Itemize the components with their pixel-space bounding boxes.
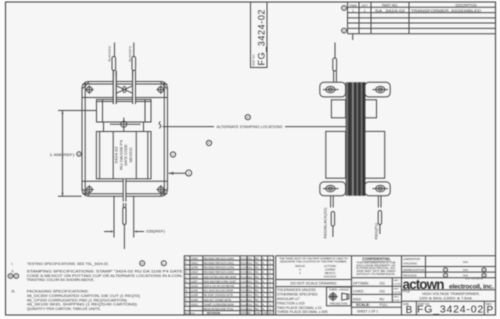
balloon P upper [245,115,250,120]
top wire right figure [334,43,336,58]
svg-text:RC: RC [255,294,259,297]
svg-text:1-31-96: 1-31-96 [393,284,401,286]
dftsmn chkd eng rows [352,278,402,307]
svg-text:N/A: N/A [463,268,468,272]
svg-text:REVISED PER ECN 10923: REVISED PER ECN 10923 [204,271,235,274]
balloon P after note I [140,261,145,266]
svg-text:P: P [141,261,143,265]
svg-text:THIRD—ANGLE: THIRD—ANGLE [329,288,349,292]
svg-text:H: H [185,271,187,274]
svg-text:II.: II. [12,270,15,274]
svg-text:CHART 12 REVISED BOM: CHART 12 REVISED BOM [204,303,234,306]
svg-text:TRASTING COLOR AS SHOWN AB: TRASTING COLOR AS SHOWN ABOVE. [27,278,95,282]
svg-text:1: 1 [188,172,190,176]
coil body [96,132,151,179]
svg-text:1: 1 [352,9,354,13]
svg-text:BY: BY [248,312,252,315]
third digit note block [276,256,496,315]
svg-text:TOLERANCES UNLESS: TOLERANCES UNLESS [277,288,316,292]
lamination stacking box [402,256,496,278]
svg-text:GG: GG [248,294,252,297]
svg-text:REVISED PER ECN 10611: REVISED PER ECN 10611 [204,262,235,265]
dim 1.468(REF) [58,111,96,197]
dim .035(REF) [104,197,144,238]
svg-text:GG: GG [248,303,252,306]
bottom foot right [365,182,390,196]
actown logo [403,277,494,292]
svg-text:BLACK(P1): BLACK(P1) [128,46,132,62]
svg-text:REVISION: REVISION [207,311,220,315]
svg-text:CHG: CHG [262,312,268,315]
parts list header text [349,3,482,12]
leader to right figure [285,126,351,128]
svg-text:DESIGNATE THE LOCATION OF: DESIGNATE THE LOCATION OF THE PART NUMBE… [280,260,347,264]
svg-text:11306: 11306 [191,290,198,293]
svg-text:GG: GG [248,257,252,260]
svg-text:WITHOUT ITS PERMISSION.: WITHOUT ITS PERMISSION. [357,272,396,276]
svg-text:N/A: N/A [463,260,468,264]
svg-text:10452: 10452 [191,257,199,260]
svg-text:OTHERWISE SPECIFIED: OTHERWISE SPECIFIED [277,293,318,297]
cup side right [365,131,385,178]
svg-text:REVISED PER ECN 10784: REVISED PER ECN 10784 [204,267,235,270]
svg-text:I.: I. [11,262,13,266]
svg-text:ALTERNATE STAMPING LOCATIONS: ALTERNATE STAMPING LOCATIONS [217,125,284,129]
svg-text:2004 IL DA 46 CU5 REVSD: 2004 IL DA 46 CU5 REVSD [204,285,235,288]
balloon L after note I [161,261,166,266]
bottom foot left [320,182,346,196]
svg-text:P: P [247,115,249,119]
svg-text:HIGH VOLTAGE TRANSFORMER,: HIGH VOLTAGE TRANSFORMER, [422,292,480,296]
plate flange fold lines [82,84,167,194]
svg-text:DFTSMN:: DFTSMN: [353,282,369,286]
svg-text:QTY: QTY [362,3,368,7]
projection symbol [330,293,337,300]
svg-text:FG_3424-02: FG_3424-02 [417,303,484,315]
svg-text:III.: III. [12,290,16,294]
svg-text:GG: GG [248,280,252,283]
svg-text:GG: GG [380,290,386,294]
mounting hole bottom-right [156,185,165,194]
svg-text:X: X [343,6,345,10]
cup side left [326,131,346,178]
confidential block [356,257,396,276]
svg-text:RC: RC [380,298,385,302]
svg-text:DATE: DATE [393,279,399,282]
svg-text:RC: RC [255,276,259,279]
leader below table [352,34,354,40]
svg-text:MEXICO: MEXICO [325,271,336,275]
plate inner side lines [85,82,164,196]
svg-text:RC: RC [255,262,259,265]
svg-text:N: N [185,294,187,297]
svg-text:ENG:: ENG: [353,298,362,302]
bottom wire left of right figure [331,196,334,208]
svg-text:SA_3424-02: SA_3424-02 [375,9,405,13]
svg-text:RED/BLACK(S2): RED/BLACK(S2) [323,208,327,239]
svg-text:CHICAGO: CHICAGO [324,275,337,279]
svg-text:RC: RC [255,271,259,274]
svg-text:1: 1 [364,9,366,13]
title box [402,290,496,302]
svg-text:RC: RC [255,267,259,270]
svg-text:ANGULAR ±1°: ANGULAR ±1° [277,297,301,301]
svg-text:11045: 11045 [191,276,198,279]
svg-text:A: A [299,267,301,271]
svg-text:GG: GG [248,285,252,288]
svg-text:3424-02: 3424-02 [115,147,119,164]
bottom wire right of right figure [378,196,381,208]
svg-text:SHEET 1 OF 1: SHEET 1 OF 1 [357,310,378,314]
svg-text:IMPREGNATION: IMPREGNATION [403,268,424,272]
svg-text:3424-02: 3424-02 [295,264,305,268]
svg-text:1-31-96: 1-31-96 [393,292,401,294]
svg-text:DO NOT SCALE DRAWING: DO NOT SCALE DRAWING [291,281,337,286]
svg-text:2-1-96: 2-1-96 [393,300,400,302]
svg-text:THREE PLACE DECIMAL ±.005: THREE PLACE DECIMAL ±.005 [277,310,327,314]
svg-text:10784: 10784 [191,267,199,270]
svg-text:RE 9/MO CHANGE NOTE: RE 9/MO CHANGE NOTE [204,294,234,297]
svg-text:FULL: FULL [380,303,388,307]
svg-text:RED(P1): RED(P1) [374,223,378,240]
svg-text:ZN: ZN [269,312,273,315]
mounting hole top-right [156,85,165,94]
svg-text:GG: GG [380,282,386,286]
svg-text:GG: GG [248,299,252,302]
svg-text:RC: RC [255,285,259,288]
revision table content (illegible fine print) [185,257,272,315]
cross brace between pins [113,84,135,94]
lead wire left (top) [114,43,116,57]
svg-text:TWO PLACE DECIMAL ±.01: TWO PLACE DECIMAL ±.01 [277,306,322,310]
top tab left [320,82,346,97]
svg-text:.035(REF): .035(REF) [145,230,165,234]
stamp squiggle on plate [159,122,161,129]
potting cup front [97,100,152,123]
svg-text:46_SK100 SKID, SHIPPING (1: 46_SK100 SKID, SHIPPING (1 REQ'D/40 CART… [27,303,137,307]
pin white cores through bracket [114,76,136,103]
grommet oval [123,87,126,93]
svg-text:RC: RC [255,299,259,302]
svg-text:CHKD:: CHKD: [353,290,364,294]
balloon R left [77,152,81,156]
balloons W D at note II [8,274,13,279]
projection box [327,287,352,306]
mounting hole bottom-left [85,185,94,194]
svg-text:P: P [208,141,210,145]
leader to left figure [163,126,215,128]
mounting hole top-left [85,85,94,94]
top tab right [365,82,390,97]
svg-text:RC: RC [255,303,259,306]
balloon F near table [342,28,347,33]
svg-text:DATE: DATE [241,312,248,315]
svg-text:11230: 11230 [191,285,198,288]
svg-text:46_DC300 CORRUGATED CARTON,: 46_DC300 CORRUGATED CARTON, DIE CUT (1 R… [27,294,140,298]
svg-text:RC: RC [255,290,259,293]
lead wire right (top) [133,43,135,57]
svg-text:TITLE:: TITLE: [403,290,411,294]
svg-text:10611: 10611 [191,262,198,265]
svg-text:RC: RC [255,308,259,311]
svg-text:ADD 96.7 STAMP NOTE: ADD 96.7 STAMP NOTE [204,299,232,302]
svg-text:PART NO.: PART NO. [252,54,256,66]
balloon P mid [206,140,211,145]
svg-text:LAMINATION: LAMINATION [403,257,420,261]
svg-text:G: G [185,267,187,270]
svg-text:N/A: N/A [463,273,468,277]
svg-text:SCALE:: SCALE: [356,303,370,307]
center mark on cup [110,118,141,132]
part no vertical box top [251,2,268,68]
balloon 1 with leader [169,170,192,176]
svg-text:RC: RC [255,257,259,260]
svg-text:DATE: DATE [393,288,399,291]
svg-text:10923: 10923 [191,271,199,274]
svg-text:GG: GG [248,271,252,274]
svg-text:11521: 11521 [191,303,198,306]
svg-text:MEXICO: MEXICO [129,147,133,162]
upper flange right [365,100,377,118]
svg-text:BLACK(S1): BLACK(S1) [107,46,111,62]
svg-text:B: B [406,305,413,316]
svg-text:1.468(REF): 1.468(REF) [50,153,75,157]
svg-text:ACTOWN: ACTOWN [324,264,336,268]
impregnation process box [402,272,496,278]
svg-text:ECL 8/NO ECL/AN 9 BOM: ECL 8/NO ECL/AN 9 BOM [204,290,234,293]
svg-text:WAS REVISED A REV 11187: WAS REVISED A REV 11187 [204,280,237,283]
svg-text:DATE: DATE [393,296,399,299]
svg-text:P: P [486,305,493,316]
svg-text:GG: GG [248,267,252,270]
bobbin neck [104,122,144,132]
svg-text:ITEM: ITEM [349,3,357,7]
svg-text:11398: 11398 [191,294,198,297]
svg-text:M: M [185,290,187,293]
svg-text:GG: GG [248,290,252,293]
svg-text:FRACTION ±.015: FRACTION ±.015 [277,301,305,305]
svg-text:REV ECN: REV ECN [185,313,195,315]
label RED(P1) [374,223,378,240]
svg-text:FG_3424-02: FG_3424-02 [257,9,267,66]
bottom pin [123,179,125,202]
svg-text:GG: GG [248,308,252,311]
mounting plate [82,82,168,197]
alternate stamping locations label [217,125,284,129]
balloon X near table [342,6,347,11]
size / part no / rev row [416,301,484,315]
upper flange left [331,100,345,118]
svg-text:PROJECTION: PROJECTION [330,301,347,305]
svg-text:GG: GG [248,262,252,265]
corner chamfer ticks [83,82,167,195]
balloon L [170,152,175,157]
svg-text:RC: RC [255,280,259,283]
parts list table top right [348,2,496,34]
svg-text:DATE CODE: DATE CODE [124,144,128,166]
svg-text:REVISED PER ECN 10452: REVISED PER ECN 10452 [204,257,235,260]
svg-text:DESCRIPTION: DESCRIPTION [456,3,478,7]
svg-text:GG: GG [248,276,252,279]
svg-text:ADD NOTES AND REV BOM: ADD NOTES AND REV BOM [204,276,237,279]
lamination stack [346,82,366,195]
svg-text:120V ⊕ 60Hz–3,500V. ⊕ 7.5m: 120V ⊕ 60Hz–3,500V. ⊕ 7.5mA. [419,297,473,301]
svg-text:RU DA/108 P4: RU DA/108 P4 [119,140,123,170]
label RED/BLK(S2) [323,208,327,239]
label BLACK(P1) [128,46,132,62]
svg-text:JUAREZ: JUAREZ [325,267,336,271]
svg-text:QUANTITY PER CARTON: TWELV: QUANTITY PER CARTON: TWELVE UNITS. [27,307,101,311]
svg-text:CHK: CHK [255,312,261,315]
svg-text:D: D [15,274,17,278]
svg-text:11455: 11455 [191,299,198,302]
svg-text:F: F [343,29,345,33]
svg-text:11187: 11187 [191,280,198,283]
stamp text on body [115,140,133,170]
svg-text:STACKING: STACKING [403,262,417,266]
label BLACK(S1) [107,46,111,62]
svg-text:O: O [185,299,187,302]
svg-text:PART NO.: PART NO. [382,3,398,7]
svg-text:TESTING SPECIFICATIONS: SEE: TESTING SPECIFICATIONS: SEE TSL_3424-02. [27,262,109,266]
svg-text:ECO #107 REV A: ECO #107 REV A [465,277,483,280]
svg-text:TRANSFORMER, ASSEMBLED: TRANSFORMER, ASSEMBLED [411,9,482,13]
